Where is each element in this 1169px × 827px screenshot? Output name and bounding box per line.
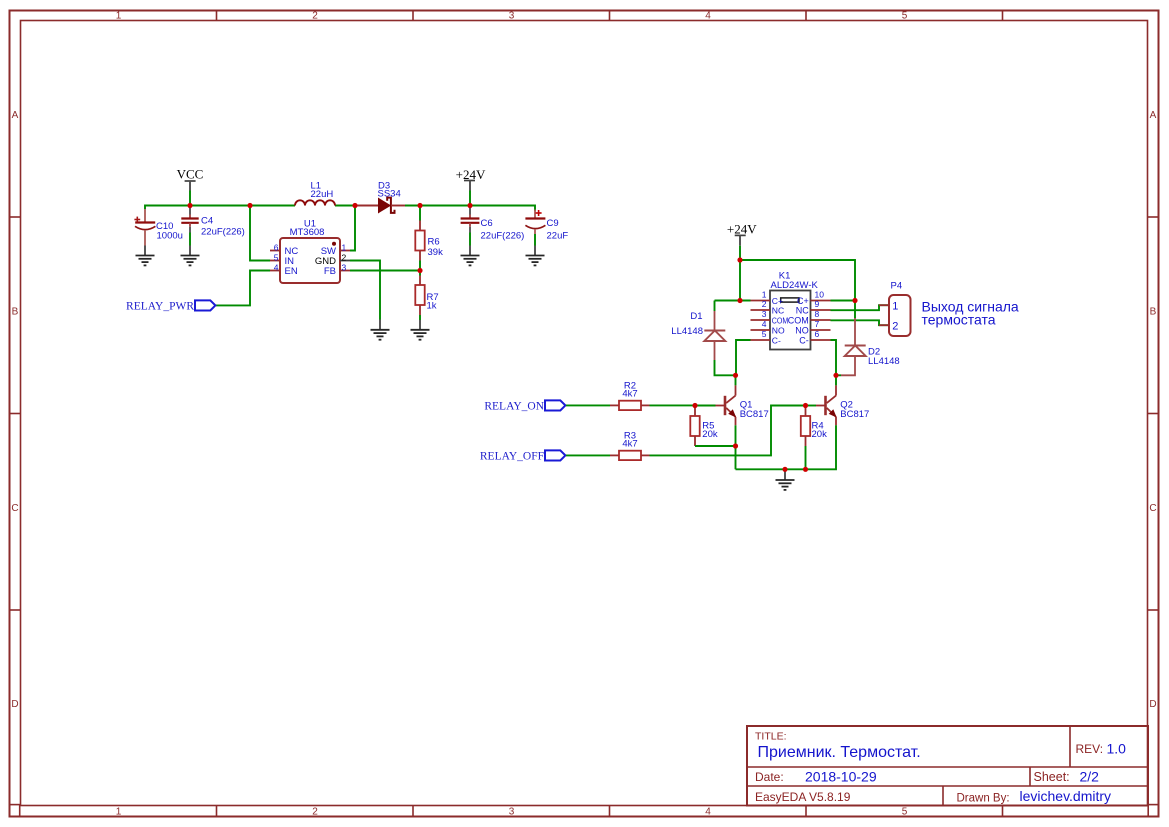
ground C9 [526,256,545,266]
ground U1 [371,330,390,340]
svg-text:levichev.dmitry: levichev.dmitry [1020,788,1112,804]
svg-text:39k: 39k [428,247,444,258]
ground C10 [136,256,155,266]
wire K1 pin9 to P4 pin1 [831,305,890,310]
wire EN to RELAY_PWR [216,271,270,306]
svg-text:5: 5 [902,807,908,818]
ground R7 [411,330,430,340]
wire C4 to ground [189,233,191,246]
svg-text:2/2: 2/2 [1080,769,1100,785]
resistor R4 [801,406,827,447]
svg-text:A: A [12,110,19,121]
svg-text:P4: P4 [891,281,903,292]
svg-text:C+: C+ [772,296,783,306]
svg-text:3: 3 [509,11,515,22]
wire ground stem relay [784,469,786,479]
svg-text:D1: D1 [690,311,702,322]
K1 pin 5 C- [751,339,771,341]
svg-text:EasyEDA V5.8.19: EasyEDA V5.8.19 [755,790,851,804]
svg-text:5: 5 [762,329,767,339]
svg-text:RELAY_ON: RELAY_ON [484,400,544,412]
svg-text:COM: COM [772,316,789,326]
svg-text:ALD24W-K: ALD24W-K [771,280,819,291]
resistor R6 [415,206,443,271]
wire +24V down to K1 pin1 [739,260,741,301]
svg-text:RELAY_PWR: RELAY_PWR [126,300,194,312]
svg-text:2: 2 [312,807,318,818]
wire RELAY_OFF to R3 [566,454,610,456]
svg-text:22uH: 22uH [311,189,334,200]
svg-text:NC: NC [772,306,784,316]
svg-text:1: 1 [342,242,347,252]
svg-text:Date:: Date: [755,770,784,784]
ground C4 [181,256,200,266]
power flag +24V right [727,222,757,246]
svg-text:1: 1 [762,289,767,299]
K1 pin 3 COM [751,319,771,321]
wire R4 bottom down [805,446,807,469]
inductor L1 [295,181,335,206]
wire +24V rail to K1 pin10 branch [740,260,855,301]
svg-text:C9: C9 [547,218,559,229]
K1 pin 7 NO [811,329,831,331]
wire R3 to Q2 base riser [650,406,806,456]
wire D3 to C9 corner [405,206,535,212]
svg-text:Drawn By:: Drawn By: [957,793,1010,805]
svg-text:LL4148: LL4148 [868,356,900,367]
wire VCC stem [189,191,191,206]
svg-text:1k: 1k [427,301,437,312]
wire K1 pin10 to +24V branch [831,300,856,302]
svg-text:4k7: 4k7 [622,388,637,399]
connector P4 [879,281,911,336]
svg-text:C: C [11,503,18,514]
svg-text:Приемник. Термостат.: Приемник. Термостат. [758,744,921,761]
diode D1 LL4148 [671,301,725,361]
K1 pin 4 NO [751,329,771,331]
svg-text:1: 1 [892,300,898,312]
svg-text:9: 9 [815,299,820,309]
K1 pin 6 C- [811,339,831,341]
svg-text:2: 2 [762,299,767,309]
capacitor C10 [134,209,183,246]
svg-text:TITLE:: TITLE: [755,731,787,743]
svg-text:VCC: VCC [177,166,204,181]
svg-text:4k7: 4k7 [622,438,637,449]
svg-text:6: 6 [815,329,820,339]
ground relay [776,480,795,490]
wire SW up [350,206,355,251]
svg-text:22uF(226): 22uF(226) [481,230,525,241]
svg-text:4: 4 [762,319,767,329]
svg-text:3: 3 [762,309,767,319]
K1 pin 8 COM [811,319,831,321]
svg-text:LL4148: LL4148 [671,326,703,337]
P4 pin 1 [879,304,889,306]
svg-text:1: 1 [116,11,122,22]
svg-text:BC817: BC817 [740,409,769,420]
ground C6 [461,256,480,266]
svg-text:RELAY_OFF: RELAY_OFF [480,450,544,462]
junction dots left [187,203,472,273]
K1 pin 2 NC [751,309,771,311]
wire K1 pin1 to D1 [715,300,751,302]
svg-text:B: B [12,307,19,318]
svg-text:SS34: SS34 [378,189,401,200]
IC U1 MT3608 [270,219,350,284]
wire R5 bottom to emitter node [695,445,736,447]
capacitor C9 [525,210,568,242]
svg-text:C6: C6 [481,218,493,229]
K1 pin 1 C+ [751,300,771,302]
diode D2 LL4148 [841,301,900,376]
svg-text:+24V: +24V [727,222,757,237]
wire Q1 base [695,405,716,407]
svg-text:C+: C+ [797,296,809,306]
resistor R2 [610,380,650,410]
svg-text:B: B [1150,307,1157,318]
power flag +24V left [456,167,486,191]
svg-text:C4: C4 [201,216,213,227]
svg-text:BC817: BC817 [840,409,869,420]
svg-text:5: 5 [902,11,908,22]
svg-text:4: 4 [705,807,711,818]
resistor R7 [415,271,438,330]
wire +24V stem right [739,246,741,260]
wire R2 to Q1 base [650,404,696,406]
U1 pin 4 EN [270,270,280,272]
svg-text:7: 7 [815,319,820,329]
wire RELAY_ON to R2 [566,404,610,406]
wire C6 to ground [469,233,471,246]
svg-text:EN: EN [285,266,298,277]
svg-text:R6: R6 [428,236,440,247]
wire D1 bottom to Q1 collector node [715,360,736,375]
svg-text:2018-10-29: 2018-10-29 [805,769,877,785]
svg-text:4: 4 [274,262,279,272]
svg-text:MT3608: MT3608 [290,227,325,238]
capacitor C4 [181,206,245,238]
diode D3 SS34 [357,180,405,213]
relay K1 ALD24W-K [751,271,831,350]
U1 pin 6 NC [270,250,280,252]
svg-text:8: 8 [815,309,820,319]
net flag RELAY_PWR [126,300,215,312]
transistor Q2 BC817 [816,375,869,425]
svg-text:C-: C- [772,336,781,346]
wire K1 pin8 to P4 pin2 [831,320,890,325]
svg-text:3: 3 [509,807,515,818]
svg-text:1: 1 [116,807,122,818]
svg-text:термостата: термостата [922,312,996,328]
svg-text:NO: NO [772,326,785,336]
wire K1 pin6 down to Q2 collector node [831,340,837,375]
U1 pin 2 GND [340,260,350,262]
wire main top rail left [145,206,295,210]
power flag VCC [177,166,204,190]
resistor R3 [610,430,650,460]
svg-text:C: C [1149,503,1156,514]
U1 pin 5 IN [270,260,280,262]
svg-text:5: 5 [274,252,279,262]
wire Q2 emitter down and bottom rail [736,425,837,469]
wire C10 to ground [144,246,146,256]
wire +24V stem [469,191,471,206]
svg-text:22uF: 22uF [547,230,569,241]
capacitor C6 [461,206,525,242]
U1 pin 3 FB [340,270,350,272]
svg-text:1.0: 1.0 [1107,740,1127,756]
wire Q2 base [806,405,817,407]
svg-text:FB: FB [324,266,336,277]
svg-text:2: 2 [892,320,898,332]
transistor Q1 BC817 [716,375,769,425]
wire L1 to D3 [335,205,357,207]
TITLE BLOCK [747,726,1148,806]
wire C9 to ground [534,234,536,246]
svg-text:22uF(226): 22uF(226) [201,226,245,237]
K1 pin 9 NC [811,309,831,311]
wire Q1 emitter down [735,425,737,469]
svg-text:1000u: 1000u [157,230,183,241]
svg-text:3: 3 [342,262,347,272]
junction dots right [692,257,857,472]
svg-text:NC: NC [796,306,809,316]
K1 pin 10 C+ [811,300,831,302]
svg-text:Sheet:: Sheet: [1034,770,1070,784]
svg-text:D: D [11,699,18,710]
svg-text:10: 10 [815,289,825,299]
wire K1 pin5 down [736,340,751,375]
svg-text:20k: 20k [702,429,718,440]
wire IN [250,206,270,261]
U1 pin 1 SW [340,250,350,252]
P4 pin 2 [879,324,889,326]
net flag RELAY_ON [484,400,565,412]
svg-text:REV:: REV: [1076,742,1104,756]
svg-text:NO: NO [795,326,809,336]
svg-text:2: 2 [342,252,347,262]
svg-text:D: D [1149,699,1156,710]
label thermostat output [922,298,1019,327]
wire FB [350,270,420,272]
svg-text:COM: COM [788,316,809,326]
svg-text:A: A [1150,110,1157,121]
svg-text:20k: 20k [812,429,828,440]
net flag RELAY_OFF [480,450,566,462]
resistor R5 [690,406,718,447]
svg-text:6: 6 [274,242,279,252]
svg-text:4: 4 [705,11,711,22]
svg-text:C-: C- [799,336,809,346]
wire GND pin to ground [350,261,380,320]
svg-text:2: 2 [312,11,318,22]
wire D2 bottom to Q2 node [836,374,841,376]
